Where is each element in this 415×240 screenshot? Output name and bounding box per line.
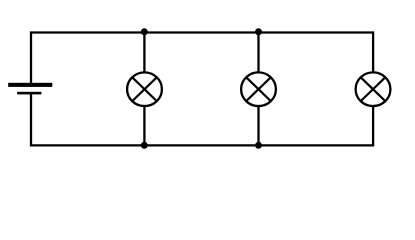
wire: branch 1 lower (lamp 1 to bottom bus) [143,105,145,146]
wire: branch 3 lower (lamp 3 to bottom bus) [372,105,374,146]
junction dot: bottom of branch 1 [141,142,148,149]
lamp 1 [127,72,162,106]
wire: bottom horizontal bus [30,144,374,146]
lamp 3 [356,72,391,106]
junction dot: top of branch 1 [141,28,148,35]
battery cell [8,83,52,95]
wire: branch 3 upper (top bus to lamp 3) [372,32,374,74]
wire: branch 1 upper (top bus to lamp 1) [143,32,145,74]
wire: top horizontal bus [30,31,374,33]
wire: branch 2 upper (top bus to lamp 2) [257,32,259,74]
junction dot: top of branch 2 [255,28,262,35]
wire: branch 2 lower (lamp 2 to bottom bus) [257,105,259,146]
lamp 2 [241,72,276,106]
junction dot: bottom of branch 2 [255,142,262,149]
wire: left vertical from battery negative plate to bottom bus [30,94,32,147]
wire: left vertical from top bus to battery positive plate [30,32,32,84]
